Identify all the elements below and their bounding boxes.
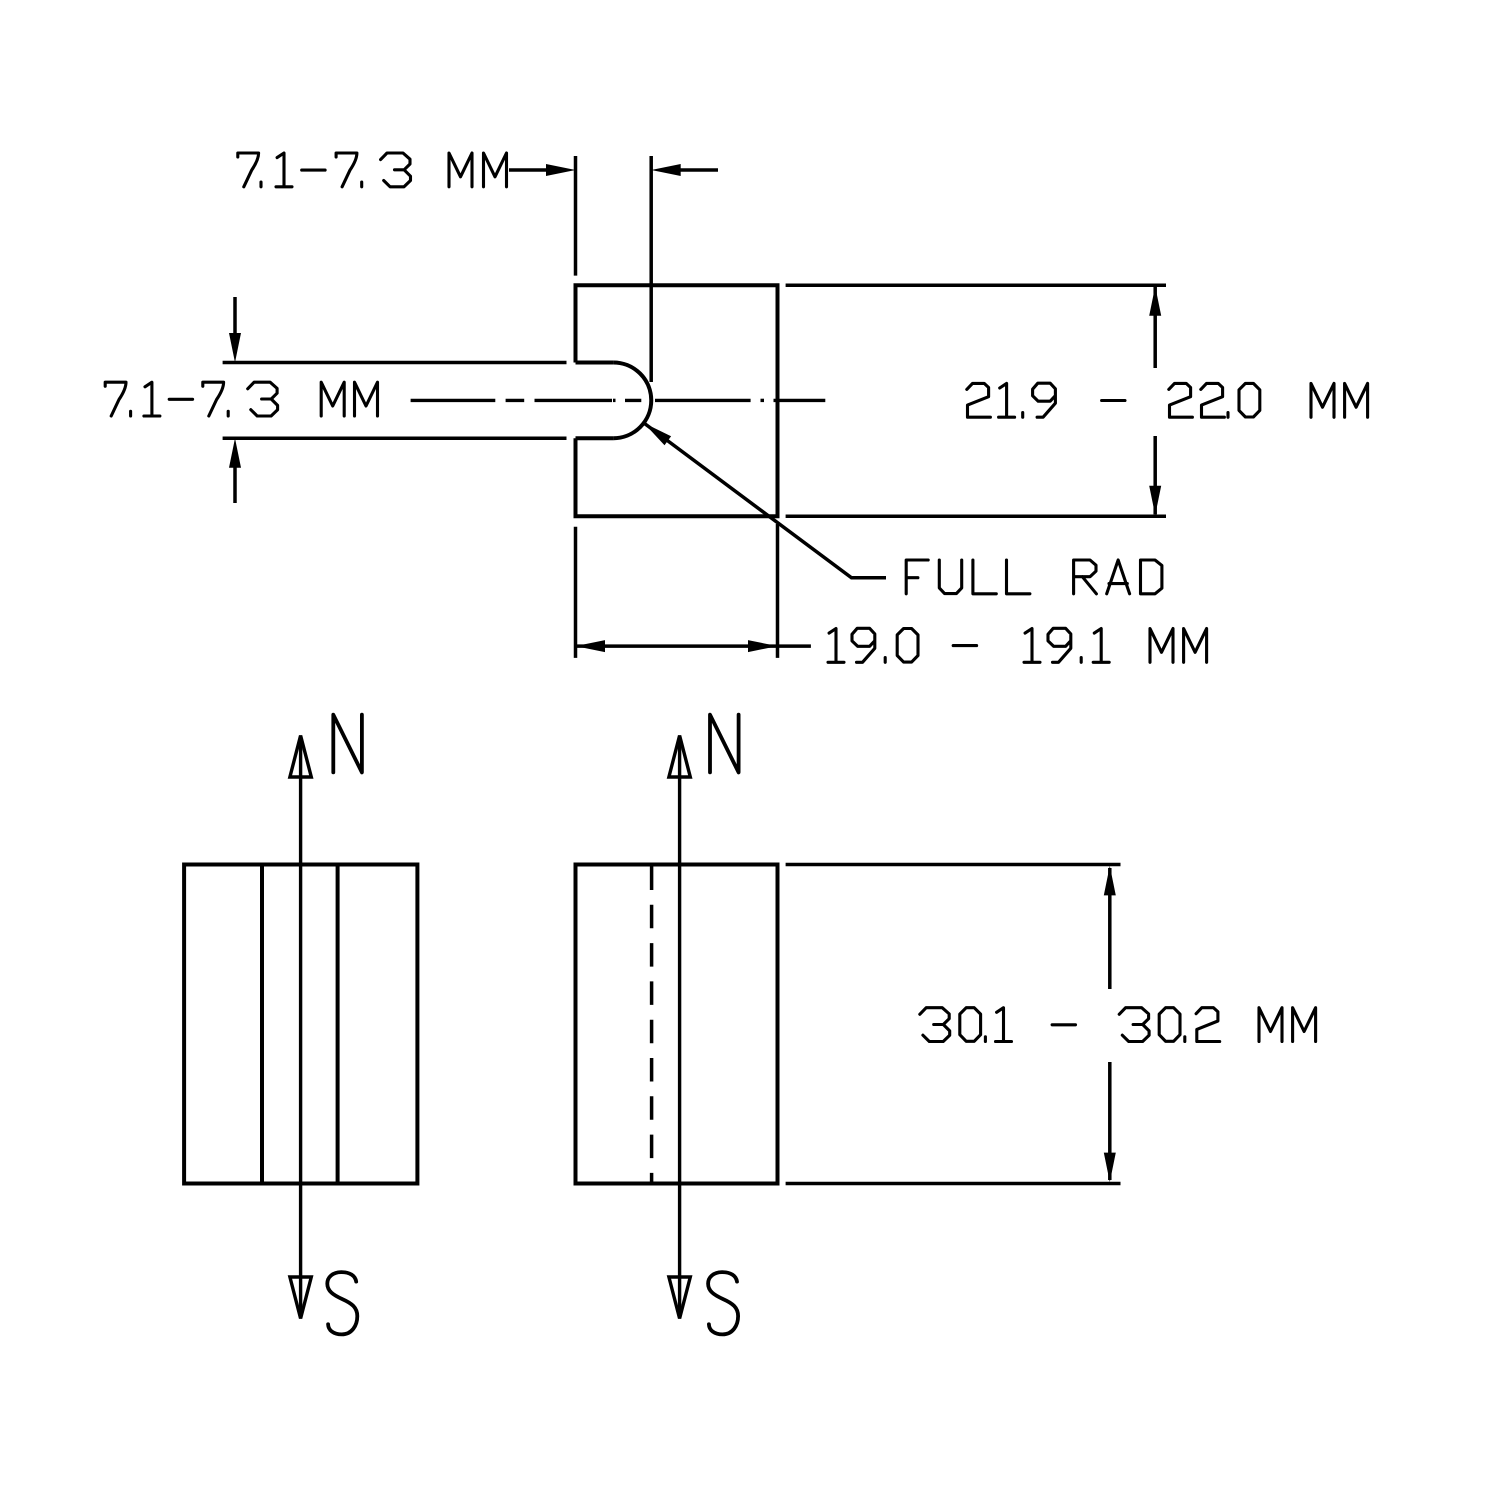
extension line body width right (bottom)	[776, 524, 780, 658]
bottom-right view: magnet side face outline	[576, 865, 778, 1184]
body width dimension line with arrows	[576, 644, 778, 648]
magnetization axis arrow shaft (left view)	[299, 737, 302, 1317]
open arrowhead N (right view)	[669, 736, 690, 778]
pole label S (right view)	[708, 1272, 738, 1334]
slot centerline (dash-dot)	[411, 399, 496, 402]
leader arrowhead at slot radius	[644, 423, 671, 445]
leader line to FULL RAD	[644, 423, 886, 578]
pole label N (left view)	[333, 715, 362, 773]
slot width dimension arrow (down)	[233, 297, 237, 336]
extension line body height bottom (right)	[786, 514, 1166, 518]
extension line overall length top (right)	[786, 863, 1121, 867]
hidden line of slot (dashed)	[650, 867, 654, 1184]
bottom-left view: magnet front face outline	[184, 865, 417, 1184]
pole label S (left view)	[327, 1272, 357, 1334]
dimension text 19.0 - 19.1 MM	[828, 628, 1207, 662]
slot width dimension arrow (up)	[233, 464, 237, 503]
extension line slot depth right (top)	[649, 156, 653, 382]
slot depth dimension arrow (right-pointing)	[509, 168, 549, 172]
note text FULL RAD	[906, 560, 1162, 594]
extension line slot bottom (left)	[223, 436, 567, 440]
open arrowhead N (left view)	[290, 736, 311, 778]
extension line body width left (bottom)	[574, 527, 578, 658]
open arrowhead S (left view)	[290, 1277, 311, 1319]
extension line slot top (left)	[223, 361, 567, 365]
slot edge line (right)	[336, 865, 340, 1184]
body height dimension line (broken for text)	[1153, 287, 1157, 368]
dimension text 7.1-7.3 MM (slot depth, top)	[238, 153, 507, 187]
overall length dimension line (broken for text)	[1108, 868, 1112, 989]
pole label N (right view)	[710, 715, 739, 773]
slot top edge	[576, 361, 614, 365]
dimension text 21.9 - 22.0 MM	[967, 383, 1368, 417]
slot bottom edge	[576, 436, 614, 440]
dimension text 7.1-7.3 MM (slot width, left)	[105, 382, 377, 416]
top view: magnet body outline with slot opening on left	[576, 285, 778, 516]
open arrowhead S (right view)	[669, 1277, 690, 1319]
extension line overall length bottom (right)	[786, 1182, 1121, 1186]
slot full-radius end arc	[613, 363, 651, 439]
slot edge line (left)	[260, 865, 264, 1184]
extension line slot depth left (top)	[574, 156, 578, 276]
magnetization axis arrow shaft (right view)	[678, 737, 681, 1317]
extension line body height top (right)	[786, 283, 1166, 287]
slot depth dimension arrow (left-pointing)	[678, 168, 718, 172]
dimension text 30.1 - 30.2 MM	[920, 1008, 1316, 1042]
